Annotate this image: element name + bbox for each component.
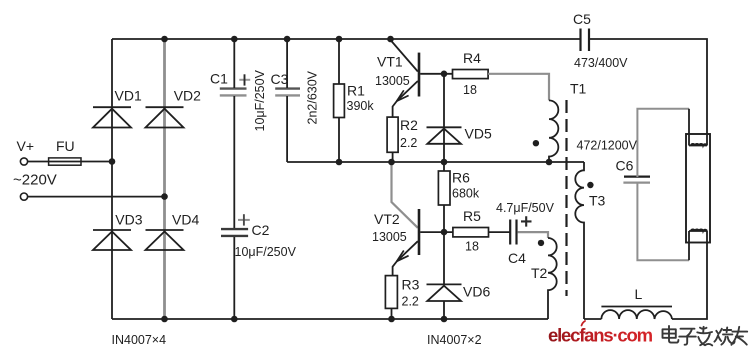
svg-text:V+: V+ xyxy=(17,138,35,154)
wire bottom bus right with lamp column xyxy=(584,231,707,319)
junction bottom bus C2 xyxy=(231,316,238,323)
fuse FU xyxy=(49,158,81,165)
resistor R5 xyxy=(453,228,489,237)
svg-text:T3: T3 xyxy=(589,193,606,209)
capacitor C4 xyxy=(510,216,531,244)
svg-text:10μF/250V: 10μF/250V xyxy=(253,69,267,131)
svg-text:VT1: VT1 xyxy=(377,54,403,70)
svg-text:C4: C4 xyxy=(508,250,526,266)
resistor R1 xyxy=(334,84,345,118)
lamp tube xyxy=(686,134,710,243)
lamp filament top xyxy=(689,144,707,146)
junction bottom bus VD4 xyxy=(161,316,168,323)
svg-text:C6: C6 xyxy=(616,158,634,174)
diode VD6 xyxy=(427,284,462,301)
svg-text:C5: C5 xyxy=(573,11,591,27)
svg-text:IN4007×2: IN4007×2 xyxy=(427,333,482,347)
wire top bus xyxy=(112,38,581,40)
svg-text:18: 18 xyxy=(465,240,479,254)
wire fuse line xyxy=(28,161,112,163)
wire R4 to T1 (gray) xyxy=(488,74,549,101)
svg-text:C2: C2 xyxy=(252,222,270,238)
junction FU node xyxy=(109,158,116,165)
wire R3 bottom xyxy=(391,308,393,319)
svg-text:472/1200V: 472/1200V xyxy=(577,139,638,153)
wire mid line (half-bridge midpoint) xyxy=(287,161,584,163)
inductor T2 winding xyxy=(548,238,557,319)
junction top bus at C1 xyxy=(231,36,238,43)
svg-text:VD5: VD5 xyxy=(465,126,492,142)
svg-text:VD6: VD6 xyxy=(463,284,490,300)
svg-text:2n2/630V: 2n2/630V xyxy=(306,70,320,124)
svg-text:VT2: VT2 xyxy=(374,211,400,227)
wire lamp left pin top xyxy=(688,109,690,146)
wire 220V line xyxy=(28,196,165,198)
junction VT2 base xyxy=(441,229,448,236)
svg-text:~220V: ~220V xyxy=(13,172,57,189)
inductor T1 winding xyxy=(549,100,558,162)
node V+ terminal xyxy=(20,158,27,165)
diode VD5 xyxy=(427,127,462,144)
svg-text:390k: 390k xyxy=(347,99,375,113)
svg-text:L: L xyxy=(635,286,643,302)
junction midline T1 xyxy=(546,159,553,166)
junction bottom bus R3 xyxy=(388,316,395,323)
wire R2 bottom xyxy=(392,152,394,162)
diode VD1 xyxy=(93,107,131,127)
wire VD5 column xyxy=(443,74,445,319)
diode VD2 xyxy=(146,107,184,127)
wire top bus right of C5 xyxy=(589,39,707,146)
svg-text:13005: 13005 xyxy=(372,230,407,244)
inductor L xyxy=(601,307,672,320)
svg-text:4.7μF/50V: 4.7μF/50V xyxy=(496,201,555,215)
capacitor C3 xyxy=(275,89,300,96)
lamp filament bottom xyxy=(689,229,707,231)
resistor R2 xyxy=(387,117,398,152)
svg-text:473/400V: 473/400V xyxy=(574,56,628,70)
svg-text:R1: R1 xyxy=(347,83,365,99)
svg-text:C3: C3 xyxy=(271,71,289,87)
wire C6 loop (gray) xyxy=(637,109,689,260)
wire R1 column xyxy=(338,39,340,162)
svg-text:18: 18 xyxy=(463,83,477,97)
diode VD3 xyxy=(93,230,131,250)
junction bottom bus VD6 xyxy=(441,316,448,323)
svg-text:680k: 680k xyxy=(452,187,480,201)
node T2 polarity dot xyxy=(538,240,544,246)
resistor R4 xyxy=(453,70,489,79)
svg-text:10μF/250V: 10μF/250V xyxy=(235,245,297,259)
svg-text:IN4007×4: IN4007×4 xyxy=(112,333,167,347)
svg-text:R3: R3 xyxy=(402,277,420,293)
wire bridge left column xyxy=(111,39,113,319)
svg-text:T1: T1 xyxy=(570,81,587,97)
svg-text:R2: R2 xyxy=(400,117,418,133)
svg-text:VD4: VD4 xyxy=(172,212,199,228)
svg-text:FU: FU xyxy=(56,138,75,154)
elecfans chinese tagline xyxy=(663,326,748,345)
wire bottom bus left xyxy=(112,318,548,320)
junction midline VT xyxy=(388,159,395,166)
resistor R3 xyxy=(385,276,397,309)
wire C1C2 column xyxy=(233,39,235,319)
wire lamp left pin bottom xyxy=(688,231,690,260)
capacitor C5 xyxy=(581,29,590,52)
svg-text:2.2: 2.2 xyxy=(402,295,419,309)
svg-text:VD2: VD2 xyxy=(174,88,201,104)
svg-text:R5: R5 xyxy=(463,208,481,224)
svg-text:VD3: VD3 xyxy=(115,212,142,228)
svg-text:elecfans·com: elecfans·com xyxy=(548,325,653,346)
transistor VT2 xyxy=(392,162,453,276)
wire bridge right column (gray) xyxy=(163,39,166,319)
resistor R6 xyxy=(438,171,450,205)
wire C4 to T2 (gray) xyxy=(518,232,548,238)
capacitor C1 xyxy=(220,74,250,95)
wire R5 to C4 xyxy=(489,231,511,233)
capacitor C2 xyxy=(221,214,250,236)
node ~220V terminal xyxy=(20,193,27,200)
node T3 polarity dot xyxy=(587,182,593,188)
svg-text:R6: R6 xyxy=(452,170,470,186)
junction top bus at VD2 xyxy=(161,36,168,43)
junction top bus at R1 xyxy=(336,36,343,43)
node T1 polarity dot xyxy=(533,140,539,146)
junction midline R1 xyxy=(336,159,343,166)
svg-text:VD1: VD1 xyxy=(115,88,142,104)
svg-text:C1: C1 xyxy=(210,71,228,87)
logo accent tick xyxy=(582,321,586,326)
junction top bus at VT1 xyxy=(387,36,394,43)
svg-text:T2: T2 xyxy=(531,265,548,281)
transformer core xyxy=(565,100,567,296)
diode VD4 xyxy=(146,230,184,250)
wire C3 column xyxy=(286,39,288,162)
inductor T3 winding xyxy=(575,162,584,319)
svg-text:13005: 13005 xyxy=(375,74,410,88)
capacitor C6 xyxy=(623,177,650,183)
svg-text:2.2: 2.2 xyxy=(400,136,417,150)
transistor VT1 xyxy=(391,40,453,117)
svg-text:R4: R4 xyxy=(463,50,481,66)
junction midline VD5 xyxy=(441,159,448,166)
junction VT1 base xyxy=(441,71,448,78)
junction top bus at C3 xyxy=(284,36,291,43)
junction 220V node xyxy=(161,193,168,200)
